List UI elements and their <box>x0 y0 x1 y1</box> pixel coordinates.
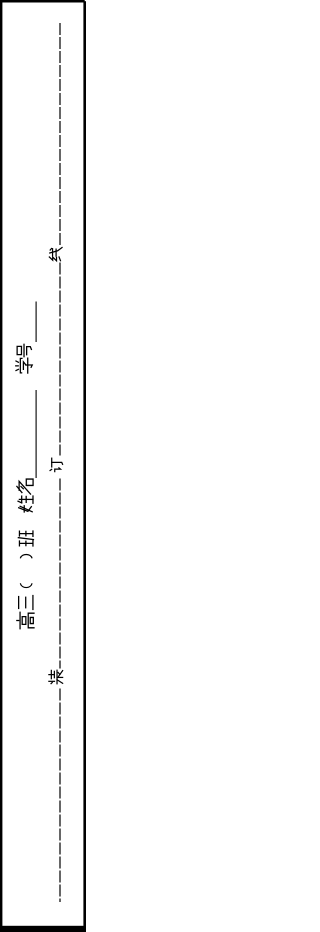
left border bar <box>0 0 2 932</box>
binding dashed line segment 3 (订 to 装) <box>59 479 61 669</box>
seal character 订 <box>50 458 63 472</box>
seal character 线 <box>49 248 62 261</box>
student info character 三 <box>19 596 33 610</box>
student info character ）(vertical form arc) <box>20 554 32 558</box>
binding dashed line segment 1 (top to 线) <box>59 23 61 245</box>
bottom border bar <box>0 926 86 932</box>
student info character 班 <box>18 531 33 546</box>
seal character 装 <box>49 670 63 684</box>
student info character （(vertical form arc) <box>20 583 32 587</box>
binding dashed line segment 2 (线 to 订) <box>59 263 61 456</box>
student info character 姓 <box>18 496 33 512</box>
page background <box>0 0 86 932</box>
student info text: 学号 underline <box>35 302 37 343</box>
student info text: 姓名 underline <box>35 390 37 478</box>
student info character 高 <box>17 612 34 628</box>
top border bar <box>0 0 85 3</box>
binding dashed line segment 4 (装 to bottom) <box>59 689 61 903</box>
student info character 名 <box>17 479 33 494</box>
student info character 学 <box>16 358 32 373</box>
right border bar <box>83 1 86 932</box>
student info character 号 <box>17 344 31 356</box>
